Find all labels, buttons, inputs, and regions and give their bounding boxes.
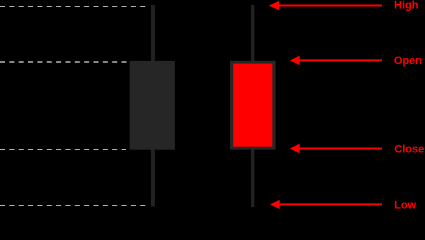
arrow: Open [290, 56, 382, 66]
dashed level line: Low [0, 205, 146, 207]
dashed level line: High [0, 6, 146, 8]
right candle body red fill (bullish) [233, 64, 272, 147]
arrow: High [269, 1, 382, 10]
dashed level line: Open [0, 61, 129, 63]
left candle wick [151, 5, 155, 207]
arrow: Close [290, 144, 382, 154]
svg-text:Low: Low [394, 199, 416, 211]
dashed level line: Close [0, 149, 126, 151]
arrow: Low [270, 200, 382, 209]
right candle body border [230, 61, 276, 150]
right candle wick [251, 5, 254, 207]
svg-text:Close: Close [394, 143, 424, 155]
svg-text:Open: Open [394, 55, 422, 67]
svg-text:High: High [394, 0, 419, 12]
left candle body (bearish, dark fill) [130, 61, 175, 150]
